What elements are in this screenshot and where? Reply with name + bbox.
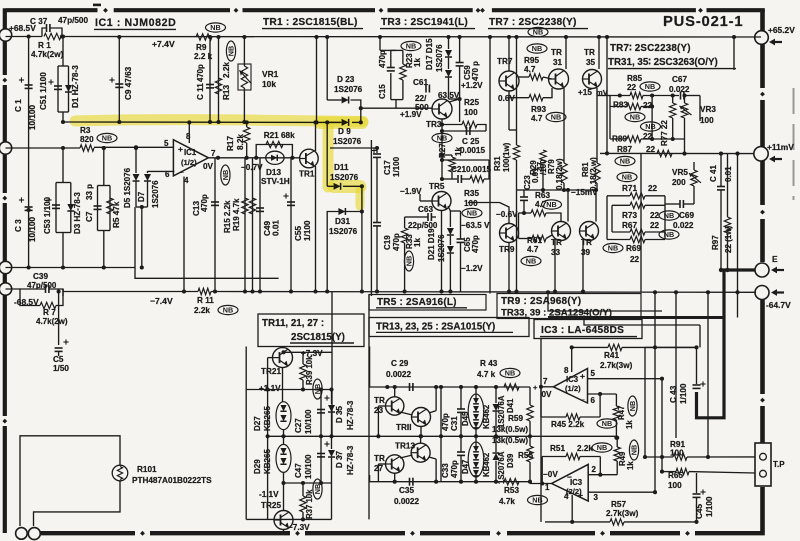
wire C31 branchA [440, 387, 442, 436]
svg-text:−0V: −0V [543, 470, 558, 479]
wire C53-D3 bottom [62, 233, 64, 268]
node C1 top [27, 34, 31, 38]
wire R91 left [645, 456, 673, 458]
wire R67 right [645, 231, 665, 233]
svg-text:C19: C19 [383, 235, 392, 250]
wire base bus TR21-TR25 [267, 358, 269, 519]
wire lower leg [369, 475, 371, 482]
wire R51 down leg [599, 457, 601, 475]
svg-text:NB: NB [532, 44, 542, 53]
svg-text:IC3 : LA-6458DS: IC3 : LA-6458DS [541, 325, 624, 336]
capacitor C43 [693, 385, 701, 388]
svg-text:10/100: 10/100 [28, 105, 37, 130]
NB 0V [221, 165, 230, 185]
NB R9 [206, 23, 226, 32]
capacitor C7 [94, 206, 102, 209]
svg-text:IC3: IC3 [570, 478, 583, 487]
wire thick net 317 [548, 316, 724, 319]
node C3 [27, 208, 31, 212]
svg-text:E: E [772, 254, 778, 264]
scan edge mark [793, 88, 795, 200]
svg-text:C33: C33 [441, 463, 450, 478]
capacitor C67 [681, 92, 684, 100]
node D9 cathode [359, 120, 363, 124]
resistor R47 [613, 406, 619, 420]
wire R63 right [546, 213, 561, 222]
wire lower net [370, 481, 530, 483]
wire v708 down [707, 292, 709, 457]
svg-text:C31: C31 [450, 416, 459, 431]
wire to TR3 base [361, 107, 432, 109]
svg-text:TR7: TR7 [497, 57, 513, 66]
svg-text:D31: D31 [335, 217, 350, 226]
wire tie C15 bottom [391, 99, 403, 101]
svg-text:NB: NB [210, 23, 220, 32]
wire net311 [548, 292, 662, 311]
wire section divider x369 [368, 295, 370, 520]
NB R13 [226, 41, 235, 61]
wire v327 to D11 [326, 122, 328, 186]
resistor R7 [40, 302, 56, 308]
wire C15 branch b [390, 73, 392, 100]
svg-text:T.P: T.P [773, 460, 785, 469]
svg-text:IC1 : NJM082D: IC1 : NJM082D [95, 17, 176, 29]
terminal +68.5V lower [0, 142, 12, 154]
wire mid tie [268, 435, 332, 437]
svg-text:2.7k(3w): 2.7k(3w) [600, 361, 633, 370]
svg-text:6: 6 [591, 396, 596, 405]
terminal -68.5V lower [0, 283, 12, 295]
terminal bottom-left A [16, 528, 28, 540]
NB R87 [615, 156, 635, 165]
svg-text:NB: NB [664, 211, 674, 220]
svg-text:KB462: KB462 [482, 404, 491, 429]
svg-text:C7: C7 [85, 211, 94, 222]
svg-text:C 41: C 41 [709, 165, 718, 182]
svg-text:TR21: TR21 [261, 367, 281, 376]
wire C51 branch [57, 66, 59, 112]
wire TR31 collector [565, 37, 567, 69]
svg-text:8.2k: 8.2k [236, 134, 245, 150]
wire +68.5V to R1 [6, 36, 43, 38]
transistor TR33 [552, 222, 571, 241]
wire TR5 to TR9 col [468, 202, 500, 204]
svg-text:470p: 470p [200, 194, 209, 212]
wire TR23-TR11 [400, 412, 413, 415]
wire D35 bottom [331, 413, 333, 437]
NB R51 [592, 443, 612, 452]
wire v665 [664, 196, 666, 240]
svg-text:C 29: C 29 [391, 359, 409, 368]
diode D13 STV-1H [266, 151, 284, 164]
wire v607 mid [606, 196, 608, 240]
capacitor C25 [467, 127, 470, 135]
wire to R25 top [459, 99, 461, 122]
svg-text:R61: R61 [527, 236, 542, 245]
svg-text:470p: 470p [378, 50, 387, 68]
wire tie D15 C59 [449, 98, 460, 100]
svg-text:13k(0.5w): 13k(0.5w) [492, 425, 528, 434]
diode D23 [342, 97, 349, 104]
wire C65 bottom [460, 243, 462, 292]
svg-text:R77 22: R77 22 [660, 120, 669, 146]
svg-text:1k: 1k [454, 147, 463, 156]
svg-text:D41: D41 [506, 398, 515, 413]
svg-text:TR11, 21, 27 :: TR11, 21, 27 : [262, 318, 324, 329]
wire R89 right [641, 138, 685, 140]
svg-text:NB: NB [620, 157, 630, 166]
wire TR9 collector [500, 203, 510, 224]
wire R101 loop top [20, 436, 120, 526]
svg-text:D 35: D 35 [335, 406, 344, 423]
svg-text:470p: 470p [441, 413, 450, 431]
wire C7 branch [97, 186, 99, 231]
svg-text:D 23: D 23 [337, 75, 355, 84]
transistor TR31 [549, 69, 569, 89]
resistor R37 [300, 496, 306, 512]
wire C65 top [460, 211, 462, 239]
wire R45 left leg [540, 387, 542, 417]
svg-text:5: 5 [164, 139, 169, 148]
wire pin4 IC1 [183, 177, 185, 292]
resistor R79 [561, 163, 567, 183]
wire pin2 IC3b [588, 474, 617, 476]
transistor TR11 [412, 408, 431, 427]
resistor R9 [196, 34, 212, 40]
svg-text:1k: 1k [626, 461, 635, 470]
wire C47 branch [320, 436, 322, 483]
svg-text:TR1: TR1 [299, 170, 315, 179]
NB b [641, 122, 661, 131]
wire TR39 collector [595, 188, 597, 222]
wire D11-D31 [361, 186, 363, 211]
svg-text:R25: R25 [464, 98, 479, 107]
wire TR5 base [420, 200, 432, 202]
svg-text:KB462: KB462 [482, 452, 491, 477]
capacitor C47 [317, 454, 325, 457]
svg-text:7: 7 [543, 377, 548, 386]
NB R69 [603, 243, 623, 252]
svg-text:100: 100 [464, 108, 478, 117]
op-amp IC3 (1/2) [553, 369, 587, 404]
wire feedback box [135, 207, 279, 278]
wire C59 bottom [459, 66, 461, 99]
svg-text:NB: NB [602, 419, 612, 428]
svg-text:0.0022: 0.0022 [386, 370, 411, 379]
transistor TR1 [300, 149, 319, 168]
svg-text:TR5 : 2SA916(L): TR5 : 2SA916(L) [377, 297, 457, 308]
wire C15 branch a [390, 50, 392, 67]
svg-text:KB265: KB265 [263, 406, 272, 431]
wire section left edge [245, 347, 247, 520]
plus C3 [19, 197, 24, 202]
wire bus to pin5 [94, 146, 173, 148]
wire TR25 emitter stub [283, 530, 285, 533]
svg-text:R71: R71 [622, 184, 637, 193]
svg-text:1/100: 1/100 [303, 220, 312, 241]
svg-text:TR9 : 2SA968(Y): TR9 : 2SA968(Y) [501, 296, 581, 307]
wire pin7 IC3a [541, 386, 553, 388]
plus C47 [324, 441, 329, 446]
resistor R29 [540, 150, 546, 165]
NB R71 [617, 172, 637, 181]
wire R23 branch a [402, 50, 404, 64]
svg-text:4.7k(2w): 4.7k(2w) [36, 317, 68, 326]
wire TR5 emitter down [441, 211, 443, 292]
wire C43 top [696, 347, 698, 384]
svg-text:470p: 470p [471, 235, 480, 253]
wire R97 top [727, 154, 729, 217]
svg-text:C69: C69 [679, 211, 694, 220]
svg-text:+: + [580, 371, 585, 381]
wire v516 [516, 37, 518, 145]
svg-text:C 37: C 37 [30, 17, 48, 26]
resistor R3 [80, 145, 94, 151]
svg-text:33 p: 33 p [85, 184, 94, 200]
wire D37 bottom [331, 458, 333, 483]
svg-text:200: 200 [672, 178, 686, 187]
node D1 top [61, 34, 65, 38]
svg-text:4: 4 [564, 492, 569, 501]
svg-text:+1.2V: +1.2V [461, 81, 483, 90]
transistor TR7 [499, 71, 519, 91]
diode D9 [342, 119, 349, 126]
svg-text:C 25: C 25 [462, 137, 480, 146]
svg-text:+7.4V: +7.4V [152, 39, 175, 49]
wire D19-D21 [449, 236, 451, 245]
capacitor C41 [717, 187, 725, 190]
wire C59 top [459, 37, 461, 62]
node 63 bus [61, 146, 65, 150]
resistor R41 [608, 344, 622, 350]
svg-text:−63.5 V: −63.5 V [461, 221, 490, 230]
resistor R19 [249, 198, 255, 214]
terminal +65.2V [755, 31, 769, 45]
svg-text:NB: NB [406, 42, 416, 51]
wire D1 branch top [62, 37, 64, 67]
svg-text:1k: 1k [625, 420, 634, 429]
svg-text:VR5: VR5 [672, 168, 688, 177]
svg-text:820: 820 [80, 135, 94, 144]
svg-text:C53 1/100: C53 1/100 [43, 197, 52, 234]
svg-text:IC1: IC1 [184, 148, 197, 157]
resistor R55 [527, 446, 533, 462]
svg-text:D27: D27 [253, 416, 262, 431]
header box TR11 rect [258, 314, 364, 347]
svg-text:35: 35 [586, 58, 596, 67]
svg-text:2.2k: 2.2k [222, 62, 231, 78]
resistor R67 [630, 229, 645, 235]
resistor R27 [449, 157, 455, 172]
wire R45 right [580, 416, 600, 418]
wire C1 branch [28, 37, 30, 268]
wire C25 tie [442, 130, 486, 132]
node C43 top [694, 345, 698, 349]
wire pin1 to R51 [541, 457, 543, 484]
wire C37 right [51, 28, 63, 37]
diode pack D29 KB265 [276, 444, 291, 472]
wire C39 left [6, 289, 21, 296]
wire C7R5 bottom leg [103, 231, 105, 268]
svg-text:0.18(2w): 0.18(2w) [555, 158, 564, 190]
wire net325 [584, 318, 700, 326]
capacitor C11 [206, 85, 214, 88]
wire C41 bottom [720, 190, 722, 268]
svg-text:PTH487A01B0222TS: PTH487A01B0222TS [132, 476, 212, 485]
svg-text:D 37: D 37 [335, 451, 344, 468]
wire mesh mid bus [651, 96, 653, 140]
resistor R33 [401, 228, 407, 243]
wire highlighted node [68, 121, 340, 123]
wire tie D5D7 [136, 206, 148, 208]
wire VR1 bottom [243, 88, 245, 122]
header box IC3 rect [534, 320, 642, 339]
svg-text:0V: 0V [542, 390, 553, 399]
svg-text:-1.1V: -1.1V [259, 490, 279, 499]
svg-text:R65: R65 [668, 471, 683, 480]
wire D15 bottom [448, 78, 450, 99]
svg-text:D7: D7 [137, 191, 146, 202]
wire R69 left [607, 239, 630, 241]
capacitor C61 [426, 85, 429, 93]
highlighter mark [75, 120, 363, 206]
wire TR1 collector [315, 122, 317, 151]
svg-text:R35: R35 [464, 189, 479, 198]
wire C39 top [20, 288, 45, 290]
svg-text:NB: NB [467, 209, 477, 218]
resistor R63 [531, 210, 546, 216]
diode pack D47 KB462 [468, 442, 484, 477]
capacitor C15 [387, 68, 395, 71]
wire D23 anode [327, 99, 341, 101]
NB R33 [404, 251, 413, 271]
svg-text:C9 47/63: C9 47/63 [124, 66, 133, 100]
wire upper net [370, 347, 530, 388]
svg-text:+1.1V: +1.1V [259, 384, 281, 393]
wire TR5 collector [448, 206, 450, 211]
svg-text:0.022: 0.022 [669, 85, 690, 94]
svg-text:2.2k: 2.2k [577, 444, 593, 453]
wire C69 left [665, 203, 680, 205]
svg-text:C 3: C 3 [14, 219, 23, 232]
wire D7 cathode [147, 181, 149, 207]
wire pin6 IC1 [148, 170, 175, 172]
wire D37 top [331, 436, 333, 449]
svg-text:C5: C5 [53, 355, 64, 364]
capacitor C13 [211, 202, 219, 205]
svg-text:1k: 1k [413, 238, 422, 247]
node R3 right [102, 146, 106, 150]
border frame top [6, 8, 98, 12]
plus C43 [700, 381, 705, 386]
wire R27 jog [442, 154, 452, 156]
svg-text:+: + [533, 383, 538, 392]
svg-text:100: 100 [670, 449, 684, 458]
svg-text:0.01: 0.01 [272, 220, 281, 236]
NB R61 [521, 256, 541, 265]
wire TR11 collector [429, 411, 436, 413]
wire TR23 base [378, 405, 385, 407]
svg-text:1k: 1k [413, 58, 422, 67]
NB R63 [542, 200, 562, 209]
wire C53-D3 top [62, 148, 64, 183]
wire v734 [733, 37, 735, 70]
terminal +68.5V upper [0, 29, 12, 41]
wire TR27 base [378, 463, 385, 465]
svg-text:R57: R57 [611, 500, 626, 509]
svg-text:0.022: 0.022 [673, 221, 694, 230]
wire tie C65 top [450, 210, 460, 212]
node 327 rail [325, 35, 329, 39]
wire C11 branch [209, 37, 211, 122]
wire +7.3V tie [284, 351, 332, 353]
wire pin3 IC3b [588, 491, 655, 493]
NB R47 [628, 396, 637, 416]
plus C55 [283, 193, 288, 198]
wire D39 bottom [495, 461, 497, 482]
header box TR9 [497, 294, 641, 319]
svg-text:NB: NB [645, 122, 655, 131]
capacitor C69 [680, 200, 683, 208]
svg-text:TR13, 23, 25 : 2SA1015(Y): TR13, 23, 25 : 2SA1015(Y) [376, 322, 495, 333]
wire C53 branch [55, 183, 57, 233]
capacitor C27 [317, 410, 325, 413]
svg-text:13k(0.5w): 13k(0.5w) [492, 436, 528, 445]
svg-text:470p: 470p [392, 233, 401, 251]
wire TR35 collector [598, 37, 600, 69]
resistor R23 [400, 64, 406, 80]
node VR1 top [242, 35, 246, 39]
svg-text:R45 2.2k: R45 2.2k [551, 420, 585, 429]
svg-text:NB: NB [664, 230, 674, 239]
wire D17 top [448, 37, 450, 49]
node D5 bus [134, 145, 138, 149]
svg-text:HZ-78-3: HZ-78-3 [346, 445, 355, 475]
NB R23 [401, 41, 421, 50]
svg-text:4: 4 [184, 176, 189, 185]
wire tie C53 top [56, 182, 71, 184]
wire R69 right [645, 239, 665, 241]
capacitor C1 [25, 85, 33, 88]
svg-text:HZ-78-3: HZ-78-3 [346, 400, 355, 430]
svg-text:TR25: TR25 [261, 501, 281, 510]
wire D29 to TR25 [283, 472, 285, 510]
svg-text:D21 D19: D21 D19 [427, 228, 436, 260]
svg-text:1S2076: 1S2076 [435, 44, 444, 72]
wire R57 left [545, 521, 610, 523]
wire D35 top [331, 390, 333, 405]
svg-text:R31: R31 [493, 156, 502, 171]
svg-text:TR: TR [374, 454, 385, 463]
capacitor C51 [54, 86, 62, 89]
svg-text:R97: R97 [711, 235, 720, 250]
wire C33 branchA [440, 436, 442, 481]
svg-text:NB: NB [221, 170, 230, 180]
wire net325 drop [699, 325, 701, 347]
svg-text:STV-1H: STV-1H [261, 177, 290, 186]
wire v737 [737, 154, 739, 293]
svg-text:100: 100 [668, 481, 682, 490]
terminal +11mV [754, 147, 768, 161]
diode D41 [493, 404, 500, 411]
svg-text:PUS-021-1: PUS-021-1 [663, 14, 743, 30]
node C15 rail [378, 35, 382, 39]
svg-text:10/100: 10/100 [28, 217, 37, 242]
terminal E [755, 263, 769, 277]
svg-text:2.7k(3w): 2.7k(3w) [606, 509, 639, 518]
diode D39 [493, 453, 500, 460]
svg-text:C47: C47 [294, 463, 303, 478]
